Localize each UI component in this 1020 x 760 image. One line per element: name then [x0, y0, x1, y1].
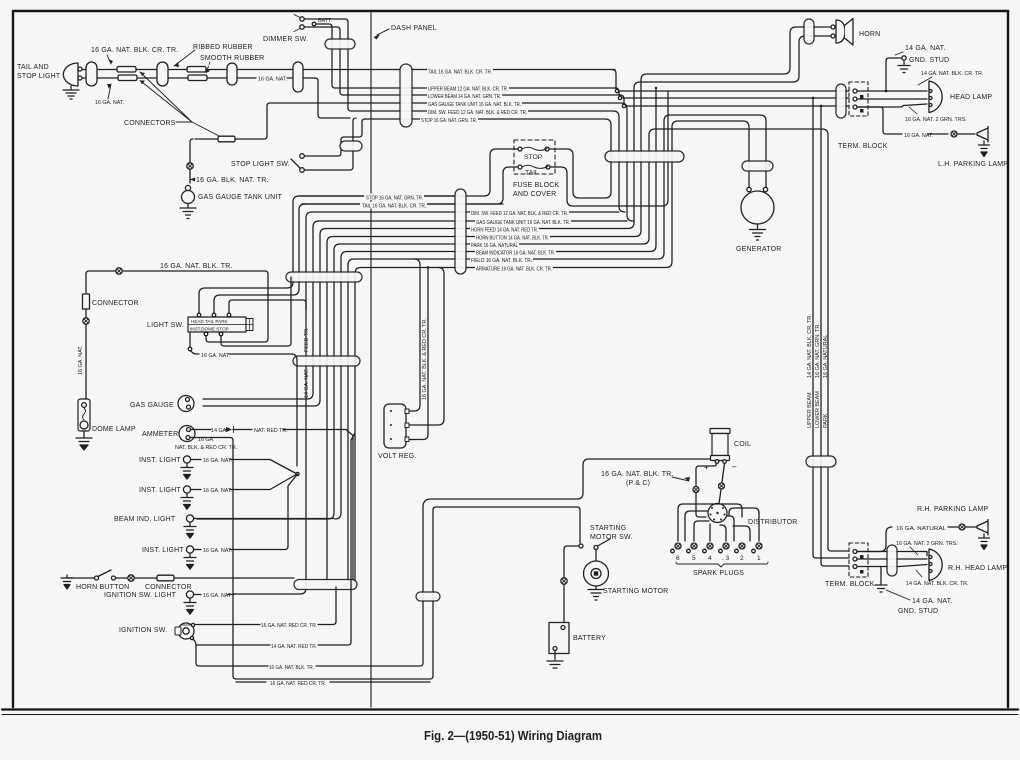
- inst light 1: [183, 456, 190, 463]
- RH rotated gauge labels: [807, 314, 829, 428]
- wire horn button row down to loom: [327, 237, 333, 585]
- coil minus wire to distributor: [719, 464, 725, 505]
- svg-text:16 GA. NAT.: 16 GA. NAT.: [201, 353, 230, 359]
- grommet oval 4: [293, 62, 303, 92]
- ign row 645: [193, 433, 355, 645]
- LH parking lamp: [977, 127, 988, 143]
- row 106 to term block: [620, 95, 849, 106]
- wire horn feed row down to gas gauge lower: [203, 229, 326, 407]
- svg-text:16 GA. NAT. BLK. TR.: 16 GA. NAT. BLK. TR.: [160, 263, 233, 270]
- cluster pill upper: [286, 272, 362, 282]
- connector C1 upper: [117, 67, 136, 73]
- gas tank vertical: [190, 139, 193, 183]
- svg-text:14 GA: 14 GA: [211, 428, 226, 434]
- row 204 tail to staircase: [302, 203, 503, 205]
- RH verticals: [813, 98, 821, 563]
- wire tail upper: [82, 69, 615, 71]
- LH head lamp: [929, 81, 942, 113]
- inst light 3: [186, 546, 193, 553]
- svg-text:16 GA. NAT. BLK. & RED CR. TR.: 16 GA. NAT. BLK. & RED CR. TR.: [422, 318, 428, 400]
- row 499 to coil: [423, 459, 713, 510]
- svg-text:AMMETER: AMMETER: [142, 431, 178, 438]
- svg-text:GENERATOR: GENERATOR: [736, 246, 782, 253]
- svg-text:14 GA. NAT.: 14 GA. NAT.: [304, 368, 310, 398]
- svg-text:VOLT REG.: VOLT REG.: [378, 453, 417, 460]
- svg-text:GAS GAUGE TANK UNIT: GAS GAUGE TANK UNIT: [198, 194, 283, 201]
- row 212 U-turn: [312, 211, 619, 213]
- wire gas tank row down to gas gauge: [203, 221, 319, 399]
- svg-text:GAS GAUGE TANK UNIT 16 GA. NAT: GAS GAUGE TANK UNIT 16 GA. NAT. BLK. TR.: [428, 102, 521, 108]
- generator: [747, 187, 751, 191]
- ground under dome lamp: [76, 431, 92, 450]
- svg-text:TAIL AND: TAIL AND: [17, 64, 49, 71]
- cluster bottom pill: [294, 580, 357, 590]
- svg-text:16 GA. BLK. NAT. TR.: 16 GA. BLK. NAT. TR.: [196, 177, 269, 184]
- wire armature row down to loom: [355, 268, 361, 585]
- svg-text:14 GA. NAT.: 14 GA. NAT.: [905, 45, 946, 52]
- svg-text:R.H. HEAD LAMP: R.H. HEAD LAMP: [948, 565, 1007, 572]
- dash panel line: [370, 13, 372, 707]
- LH headlamp wires: [857, 91, 927, 107]
- dome lamp: [78, 399, 90, 431]
- grommet oval 3: [227, 63, 237, 85]
- svg-text:16 GA. NAT. GRN. TR.: 16 GA. NAT. GRN. TR.: [815, 323, 821, 378]
- coil: [710, 429, 730, 434]
- light switch box: [188, 317, 246, 332]
- volt reg wires up: [409, 259, 444, 440]
- svg-text:16 GA. NAT. 2 GRN. TRS.: 16 GA. NAT. 2 GRN. TRS.: [896, 541, 958, 547]
- harness pill right of fuse: [605, 151, 684, 162]
- label horn button row: [475, 235, 550, 241]
- svg-text:STOP: STOP: [524, 154, 543, 161]
- svg-text:INST. LIGHT: INST. LIGHT: [142, 547, 184, 554]
- svg-text:PARK 16 GA. NATURAL: PARK 16 GA. NATURAL: [471, 243, 518, 249]
- svg-text:AND COVER: AND COVER: [513, 191, 556, 198]
- light sw left bottom wire 16 GA NAT: [189, 332, 191, 346]
- svg-text:FEED TR.: FEED TR.: [304, 327, 310, 352]
- svg-text:2: 2: [740, 555, 744, 562]
- svg-text:HORN FEED 14 GA. NAT. RED TR.: HORN FEED 14 GA. NAT. RED TR.: [471, 228, 538, 234]
- clip on row 271: [116, 268, 122, 274]
- inst light 2: [183, 486, 190, 493]
- svg-text:COIL: COIL: [734, 441, 751, 448]
- svg-text:14 GA. NAT. BLK. CR. TR.: 14 GA. NAT. BLK. CR. TR.: [906, 581, 968, 587]
- svg-text:16 GA. NATURAL: 16 GA. NATURAL: [823, 335, 829, 378]
- RH lamp grommet: [887, 545, 897, 576]
- junction circles: [615, 89, 618, 92]
- plug wire 6: [678, 504, 742, 541]
- ammeter: [179, 426, 195, 442]
- row 103 gas tank: [408, 103, 633, 221]
- light switch top pins: [197, 313, 201, 317]
- svg-text:DOME LAMP: DOME LAMP: [92, 426, 136, 433]
- wire tail row to light sw tail pin: [214, 204, 305, 314]
- row 507 to starting sw: [433, 507, 580, 543]
- row 236 horn button U-turn up to row74: [333, 27, 831, 237]
- svg-text:16 GA. NAT.: 16 GA. NAT.: [203, 488, 232, 494]
- svg-text:GND. STUD: GND. STUD: [909, 57, 949, 64]
- svg-text:INST. LIGHT: INST. LIGHT: [139, 457, 181, 464]
- wire dimmer lo to row95: [304, 27, 343, 95]
- gas gauge tank unit symbol: [185, 185, 190, 190]
- row 221 U-turn: [319, 220, 627, 222]
- horn button ground: [61, 575, 73, 589]
- row 111 dim sw feed: [351, 111, 625, 212]
- svg-text:TAIL: TAIL: [525, 170, 539, 177]
- plug wire 5: [694, 521, 709, 541]
- ign sw light: [186, 591, 193, 598]
- grommet dash main: [400, 64, 412, 127]
- fuse block cover dashed: [514, 140, 555, 174]
- ign row 666: [196, 510, 423, 666]
- tail fuse left wire to row204: [302, 167, 518, 204]
- mid row labels: [360, 194, 571, 273]
- svg-text:HEAD TAIL PARK: HEAD TAIL PARK: [191, 319, 229, 324]
- plug wire 4: [709, 524, 711, 541]
- svg-text:+: +: [704, 463, 709, 472]
- inst feed wire pin2: [221, 277, 291, 346]
- starting motor: [595, 550, 597, 562]
- cluster pill lower: [293, 356, 360, 366]
- svg-text:14 GA. NAT.: 14 GA. NAT.: [912, 598, 953, 605]
- svg-text:TAIL 16 GA. NAT. BLK. CR. TR.: TAIL 16 GA. NAT. BLK. CR. TR.: [362, 204, 426, 210]
- LH gnd stud: [902, 56, 906, 60]
- label beam indicator row: [475, 250, 556, 256]
- grommet pill at stop sw: [340, 141, 362, 151]
- ign row 624: [195, 587, 337, 625]
- svg-text:16 GA. NAT.: 16 GA. NAT.: [203, 548, 232, 554]
- svg-text:DIMMER SW.: DIMMER SW.: [263, 36, 308, 43]
- label field row: [470, 257, 533, 263]
- svg-text:BEAM IND. LIGHT: BEAM IND. LIGHT: [114, 516, 176, 523]
- fan apex node: [296, 472, 299, 475]
- LH parking lamp wire: [857, 107, 975, 134]
- svg-text:STOP LIGHT SW.: STOP LIGHT SW.: [231, 161, 290, 168]
- gas tank wire riser to row103: [264, 103, 405, 139]
- label armature row: [475, 266, 553, 272]
- ammeter wire 14GA NAT RED TR: [191, 430, 354, 585]
- battery: [549, 623, 569, 654]
- stop fuse left wire to row196: [299, 149, 518, 196]
- svg-text:TERM. BLOCK: TERM. BLOCK: [838, 143, 888, 150]
- svg-text:LOWER BEAM: LOWER BEAM: [815, 391, 821, 428]
- horn: [831, 25, 835, 29]
- label stop row: [364, 194, 424, 201]
- rotated labels cluster: [304, 327, 310, 398]
- svg-text:ARMATURE 16 GA. NAT. BLK. CR.: ARMATURE 16 GA. NAT. BLK. CR. TR.: [476, 267, 552, 273]
- svg-text:DIM. SW. FEED 12 GA. NAT. BLK.: DIM. SW. FEED 12 GA. NAT. BLK. & RED CR.…: [428, 110, 527, 116]
- wire stop sw riser: [338, 119, 366, 156]
- svg-text:GAS GAUGE TANK UNIT 16 GA. NAT: GAS GAUGE TANK UNIT 16 GA. NAT. BLK. TR.: [476, 220, 570, 226]
- horn button: [67, 577, 94, 579]
- RH parking lamp: [977, 520, 988, 536]
- RH term block: [849, 543, 868, 577]
- svg-text:DIM. SW. FEED 12 GA. NAT. BLK.: DIM. SW. FEED 12 GA. NAT. BLK. & RED CR.…: [471, 211, 568, 217]
- grommet pill dimmer: [325, 39, 355, 49]
- svg-text:NAT. RED TR.: NAT. RED TR.: [254, 428, 288, 434]
- plug wire outer left: [685, 511, 708, 541]
- svg-text:16 GA. NAT.: 16 GA. NAT.: [203, 458, 232, 464]
- grommet at dash for mid bundle: [455, 189, 466, 274]
- svg-text:NAT. BLK. & RED CR. TR.: NAT. BLK. & RED CR. TR.: [175, 445, 237, 451]
- distributor: [708, 504, 727, 523]
- tail fuse right wire down and to tail vertical: [550, 91, 668, 206]
- LH term block: [849, 82, 868, 116]
- svg-text:UPPER BEAM: UPPER BEAM: [807, 392, 813, 428]
- RH parking lamp wire: [857, 527, 977, 552]
- svg-text:HEAD LAMP: HEAD LAMP: [950, 94, 992, 101]
- dome feed wire from row271: [86, 271, 268, 342]
- label horn feed row: [470, 227, 539, 233]
- generator pill: [742, 161, 773, 171]
- svg-text:14 GA. NAT. BLK. CR. TR.: 14 GA. NAT. BLK. CR. TR.: [807, 314, 813, 378]
- LH lamp grommet: [836, 84, 846, 118]
- wire 16GA NAT stop branch down: [315, 78, 356, 167]
- wire dim sw feed row down to ign sw light: [234, 212, 312, 594]
- beam ind light: [186, 515, 193, 522]
- svg-text:GAS GAUGE: GAS GAUGE: [130, 402, 174, 409]
- row 119 stop: [405, 119, 611, 198]
- stop light switch: [300, 154, 305, 159]
- label tail row: [360, 202, 427, 209]
- svg-text:16 GA. NAT. RED CR. TR.: 16 GA. NAT. RED CR. TR.: [261, 623, 317, 629]
- ignition switch: [178, 623, 194, 639]
- svg-text:INST. LIGHT: INST. LIGHT: [139, 487, 181, 494]
- svg-text:14 GA. NAT. BLK. CR. TR.: 14 GA. NAT. BLK. CR. TR.: [921, 71, 983, 77]
- svg-text:16 GA. NATURAL: 16 GA. NATURAL: [896, 526, 946, 532]
- wire beam indicator row down to beam row: [335, 252, 347, 520]
- label gas gauge tank row: [475, 219, 571, 225]
- RH park wire into TB: [828, 468, 849, 551]
- svg-text:14 GA. NAT. RED TR.: 14 GA. NAT. RED TR.: [271, 644, 317, 650]
- row 228 horn feed U-turn up to row82: [326, 36, 831, 229]
- svg-text:STOP 16 GA. NAT. GRN. TR.: STOP 16 GA. NAT. GRN. TR.: [421, 118, 477, 124]
- svg-text:16 GA. NAT.: 16 GA. NAT.: [258, 77, 287, 83]
- svg-text:BATTERY: BATTERY: [573, 635, 606, 642]
- clip on left column: [83, 318, 89, 324]
- svg-text:6: 6: [676, 555, 680, 562]
- wire dimmer hi to row88: [304, 19, 351, 111]
- tail fuse: [518, 165, 522, 169]
- svg-text:UPPER BEAM 12 GA. NAT. BLK. CR: UPPER BEAM 12 GA. NAT. BLK. CR. TR.: [428, 87, 508, 93]
- label park row: [470, 242, 519, 248]
- batt terminal: [312, 22, 316, 26]
- connector C1 lower: [118, 75, 137, 81]
- svg-text:16 GA. NAT. BLK. TR.: 16 GA. NAT. BLK. TR.: [269, 665, 314, 671]
- svg-text:CONNECTOR: CONNECTOR: [92, 300, 139, 307]
- wire stop to row 119: [365, 118, 405, 120]
- ign row 682: [236, 681, 430, 683]
- wire tail lower: [82, 77, 315, 79]
- svg-text:FUSE BLOCK: FUSE BLOCK: [513, 182, 559, 189]
- svg-text:LOWER BEAM 14 GA. NAT. GRN. TR: LOWER BEAM 14 GA. NAT. GRN. TR.: [428, 94, 501, 100]
- svg-text:16 GA. NAT. BLK. TR.: 16 GA. NAT. BLK. TR.: [601, 471, 674, 478]
- svg-text:16 GA. NAT. RED CR. TR.: 16 GA. NAT. RED CR. TR.: [270, 681, 326, 687]
- RH wires into TB: [813, 555, 849, 566]
- wire park row down to beam ind light: [197, 244, 340, 519]
- label dim sw feed row: [470, 210, 569, 216]
- RH head lamp wires: [857, 552, 927, 567]
- row 196 stop to staircase: [299, 195, 455, 197]
- svg-text:CONNECTORS: CONNECTORS: [124, 120, 176, 127]
- row 259 field U-turn to generator F: [354, 115, 766, 259]
- ammeter lower wire down: [190, 438, 433, 680]
- battery wire: [564, 546, 579, 622]
- svg-text:16 GA. NAT. 2 GRN. TRS.: 16 GA. NAT. 2 GRN. TRS.: [905, 117, 967, 123]
- svg-text:L.H. PARKING LAMP: L.H. PARKING LAMP: [938, 161, 1008, 168]
- spark plugs: [671, 543, 762, 553]
- svg-text:16 GA. NAT. BLK. CR. TR.: 16 GA. NAT. BLK. CR. TR.: [91, 47, 178, 54]
- RH head lamp: [929, 549, 942, 581]
- connector on gas tank wire: [190, 139, 264, 142]
- plug wire 3: [720, 525, 726, 541]
- svg-text:SPARK PLUGS: SPARK PLUGS: [693, 570, 744, 577]
- svg-text:4: 4: [708, 555, 712, 562]
- svg-text:DASH PANEL: DASH PANEL: [391, 25, 437, 32]
- pill on risers: [416, 592, 440, 601]
- svg-text:STARTING: STARTING: [590, 525, 626, 532]
- tail and stop light lamp: [63, 63, 78, 86]
- row 88 upper beam: [335, 87, 617, 89]
- dimmer switch terminals: [300, 17, 304, 21]
- svg-text:LIGHT SW.: LIGHT SW.: [147, 322, 184, 329]
- stop fuse: [518, 147, 522, 151]
- row 268 armature U-turn to generator A: [361, 121, 749, 268]
- left column connector: [85, 274, 87, 399]
- wire field row down to loom: [348, 259, 354, 584]
- horn grommet: [804, 19, 814, 44]
- svg-text:RIBBED RUBBER: RIBBED RUBBER: [193, 44, 253, 51]
- svg-text:IGNITION SW. LIGHT: IGNITION SW. LIGHT: [104, 592, 177, 599]
- connector clip symbol: [187, 163, 193, 169]
- plug wire 2: [733, 526, 750, 541]
- tail row jog to term block: [612, 70, 849, 92]
- svg-text:DISTRIBUTOR: DISTRIBUTOR: [748, 519, 798, 526]
- grommet oval 2: [157, 62, 168, 86]
- svg-text:SMOOTH RUBBER: SMOOTH RUBBER: [200, 55, 264, 62]
- svg-text:STARTING MOTOR: STARTING MOTOR: [603, 588, 668, 595]
- svg-text:. 3: . 3: [722, 555, 730, 562]
- svg-text:STOP LIGHT: STOP LIGHT: [17, 73, 61, 80]
- RH park pill: [806, 456, 836, 467]
- connector C2 lower: [188, 75, 207, 81]
- spark plugs brace: [676, 562, 768, 567]
- svg-text:MOTOR SW.: MOTOR SW.: [590, 534, 633, 541]
- svg-text:(P & C): (P & C): [626, 480, 650, 487]
- wire stop row to light sw head pin: [199, 196, 299, 314]
- svg-text:INST.DOME STOP: INST.DOME STOP: [190, 327, 229, 332]
- light switch bottom pins: [204, 332, 208, 336]
- svg-text:–: –: [732, 462, 737, 471]
- svg-text:BEAM INDICATOR 16 GA. NAT. BLK: BEAM INDICATOR 16 GA. NAT. BLK. TR.: [476, 251, 555, 257]
- svg-text:GND. STUD: GND. STUD: [898, 608, 938, 615]
- svg-text:R.H. PARKING LAMP: R.H. PARKING LAMP: [917, 506, 988, 513]
- wire dimmer batt to row111: [316, 24, 335, 88]
- row 243 park U-turn up to row129: [340, 129, 828, 456]
- coil P&C wire: [696, 463, 716, 517]
- svg-text:HORN BUTTON 14 GA. NAT. BLK. T: HORN BUTTON 14 GA. NAT. BLK. TR.: [476, 236, 549, 242]
- RH gnd stud: [875, 567, 887, 593]
- svg-text:PARK: PARK: [823, 413, 829, 428]
- svg-text:16 GA. NAT.: 16 GA. NAT.: [95, 100, 124, 106]
- svg-text:5: 5: [692, 555, 696, 562]
- svg-text:16 GA. NAT.: 16 GA. NAT.: [78, 345, 84, 375]
- row 251 beam U-turn up to row88: [347, 88, 656, 252]
- svg-text:CONNECTOR: CONNECTOR: [145, 584, 192, 591]
- svg-text:HORN: HORN: [859, 31, 880, 38]
- svg-text:16 GA. NAT.: 16 GA. NAT.: [904, 133, 933, 139]
- plug wire 1: [729, 508, 759, 541]
- volt reg box: [384, 404, 406, 448]
- row labels top bundle: [420, 68, 528, 125]
- grommet oval 1: [86, 62, 97, 86]
- row 95 lower beam: [343, 94, 621, 96]
- svg-text:IGNITION SW.: IGNITION SW.: [119, 627, 167, 634]
- svg-text:TAIL 16 GA. NAT. BLK. CR. TR.: TAIL 16 GA. NAT. BLK. CR. TR.: [428, 70, 492, 76]
- gas gauge instrument: [178, 396, 194, 412]
- svg-text:FIELD 16 GA. NAT. BLK. TR.: FIELD 16 GA. NAT. BLK. TR.: [471, 258, 532, 264]
- ground under tail light: [63, 86, 79, 99]
- svg-text:STOP 16 GA. NAT. GRN. TR.: STOP 16 GA. NAT. GRN. TR.: [366, 196, 423, 202]
- plug wire inner right: [727, 516, 734, 541]
- svg-text:TERM. BLOCK: TERM. BLOCK: [825, 581, 875, 588]
- svg-text:16 GA. NAT: 16 GA. NAT: [203, 593, 232, 599]
- svg-text:HORN BUTTON: HORN BUTTON: [76, 584, 129, 591]
- svg-text:Fig. 2—(1950-51) Wiring Diagr: Fig. 2—(1950-51) Wiring Diagram: [424, 728, 602, 743]
- svg-text:1: 1: [757, 555, 761, 562]
- row 98 to term block: [615, 88, 849, 98]
- connector C2 upper: [187, 67, 206, 73]
